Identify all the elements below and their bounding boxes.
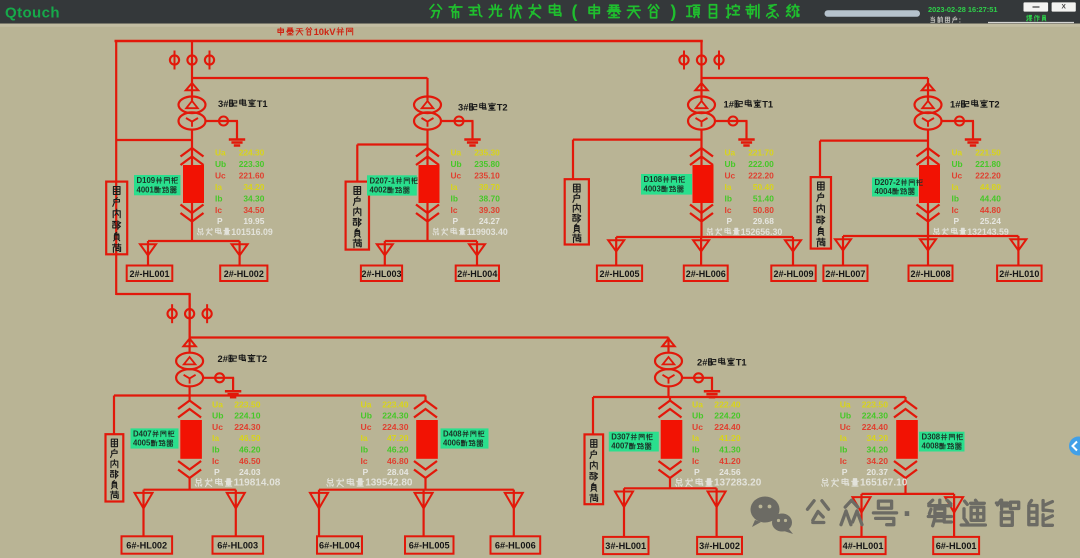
svg-text:2#-HL007: 2#-HL007 <box>825 269 865 279</box>
svg-text:Ib: Ib <box>361 445 369 455</box>
svg-text:P: P <box>453 216 459 226</box>
svg-text:152656.30: 152656.30 <box>741 227 783 237</box>
svg-text:P: P <box>217 216 223 226</box>
svg-text:38.70: 38.70 <box>479 193 500 203</box>
svg-text:P: P <box>727 216 733 226</box>
svg-text:3#: 3# <box>218 98 229 109</box>
svg-text:101516.09: 101516.09 <box>231 227 273 237</box>
svg-text:44.80: 44.80 <box>980 205 1001 215</box>
svg-text:2#-HL005: 2#-HL005 <box>600 269 640 279</box>
svg-text:223.50: 223.50 <box>234 399 261 409</box>
svg-text:41.30: 41.30 <box>719 445 741 455</box>
svg-text:139542.80: 139542.80 <box>365 477 413 488</box>
svg-text:P: P <box>842 467 848 477</box>
svg-text:P: P <box>363 467 369 477</box>
svg-text:Ia: Ia <box>451 182 458 192</box>
svg-text:224.10: 224.10 <box>234 411 261 421</box>
svg-text:2#-HL002: 2#-HL002 <box>224 269 264 279</box>
svg-text:223.30: 223.30 <box>239 159 265 169</box>
svg-text:6#-HL003: 6#-HL003 <box>217 541 258 551</box>
svg-text:Ia: Ia <box>725 182 732 192</box>
svg-text:Ib: Ib <box>692 445 700 455</box>
svg-text:51.40: 51.40 <box>753 193 774 203</box>
svg-text:235.10: 235.10 <box>474 170 500 180</box>
svg-text:235.80: 235.80 <box>474 159 500 169</box>
svg-text:Ic: Ic <box>725 205 732 215</box>
svg-text:137283.20: 137283.20 <box>714 477 762 488</box>
svg-text:Qtouch: Qtouch <box>5 5 60 22</box>
svg-text:Ub: Ub <box>212 411 223 421</box>
svg-text:Ua: Ua <box>692 399 703 409</box>
svg-text:Ib: Ib <box>725 193 732 203</box>
svg-text:4005: 4005 <box>133 439 151 448</box>
svg-text:(: ( <box>571 2 577 22</box>
svg-text:3#-HL001: 3#-HL001 <box>605 541 646 551</box>
svg-text:T2: T2 <box>989 99 1000 110</box>
svg-text:T1: T1 <box>257 98 268 109</box>
svg-text:235.30: 235.30 <box>474 148 500 158</box>
svg-text:4#-HL001: 4#-HL001 <box>843 541 884 551</box>
svg-text:39.30: 39.30 <box>479 205 500 215</box>
svg-text:P: P <box>694 467 700 477</box>
svg-text:Ia: Ia <box>215 182 222 192</box>
svg-text:D408: D408 <box>443 429 462 438</box>
svg-text:Ib: Ib <box>952 193 959 203</box>
svg-text:221.50: 221.50 <box>975 148 1001 158</box>
svg-text:2#-HL001: 2#-HL001 <box>130 269 170 279</box>
svg-text:T1: T1 <box>762 99 773 110</box>
svg-text:50.80: 50.80 <box>753 205 774 215</box>
svg-text:34.20: 34.20 <box>243 182 264 192</box>
svg-text:34.30: 34.30 <box>243 193 264 203</box>
svg-text:222.20: 222.20 <box>748 170 774 180</box>
svg-text:34.20: 34.20 <box>867 456 889 466</box>
svg-text:47.20: 47.20 <box>387 433 409 443</box>
svg-text:25.24: 25.24 <box>980 216 1001 226</box>
svg-text:2#-HL009: 2#-HL009 <box>774 269 814 279</box>
svg-text:Ic: Ic <box>840 456 847 466</box>
svg-text:T2: T2 <box>256 353 267 364</box>
svg-text:224.30: 224.30 <box>382 422 409 432</box>
svg-text:4003: 4003 <box>644 185 662 194</box>
svg-text:Ua: Ua <box>840 399 851 409</box>
svg-text:D207-1: D207-1 <box>370 176 396 185</box>
svg-text:223.40: 223.40 <box>382 399 409 409</box>
svg-text:224.30: 224.30 <box>239 148 265 158</box>
svg-text:224.30: 224.30 <box>862 411 889 421</box>
svg-text:34.50: 34.50 <box>243 205 264 215</box>
svg-text:119903.40: 119903.40 <box>467 227 508 237</box>
svg-text:D407: D407 <box>133 429 152 438</box>
svg-text:2023-02-28 16:27:51: 2023-02-28 16:27:51 <box>928 5 997 14</box>
svg-text:Uc: Uc <box>212 422 223 432</box>
svg-text:Ub: Ub <box>692 411 703 421</box>
svg-text:28.04: 28.04 <box>387 467 409 477</box>
svg-text:4002: 4002 <box>370 186 388 195</box>
svg-text:2#: 2# <box>218 353 229 364</box>
svg-text:Ic: Ic <box>451 205 458 215</box>
svg-text:224.20: 224.20 <box>714 411 741 421</box>
svg-text:Ia: Ia <box>212 433 219 443</box>
svg-text:Uc: Uc <box>451 170 462 180</box>
svg-text:119814.08: 119814.08 <box>234 477 281 488</box>
svg-text:3#-HL002: 3#-HL002 <box>699 541 740 551</box>
svg-text:Ub: Ub <box>725 159 736 169</box>
svg-text:44.80: 44.80 <box>980 182 1001 192</box>
svg-text:T1: T1 <box>736 357 747 368</box>
svg-text:Ub: Ub <box>361 411 372 421</box>
svg-text:4004: 4004 <box>875 187 893 196</box>
svg-text:224.30: 224.30 <box>234 422 261 432</box>
svg-text:44.40: 44.40 <box>980 193 1001 203</box>
svg-text:6#-HL002: 6#-HL002 <box>126 541 167 551</box>
svg-text:50.40: 50.40 <box>753 182 774 192</box>
svg-text:·: · <box>903 496 915 532</box>
svg-text:224.40: 224.40 <box>862 422 889 432</box>
svg-text:6#-HL001: 6#-HL001 <box>936 541 977 551</box>
svg-text:Uc: Uc <box>725 170 736 180</box>
svg-text:224.30: 224.30 <box>382 411 409 421</box>
svg-text:Ia: Ia <box>952 182 959 192</box>
svg-text:Uc: Uc <box>361 422 372 432</box>
svg-text:Ia: Ia <box>840 433 847 443</box>
svg-text:41.20: 41.20 <box>719 433 741 443</box>
svg-text:1#: 1# <box>724 99 735 110</box>
svg-text:2#-HL008: 2#-HL008 <box>911 269 951 279</box>
svg-text:4006: 4006 <box>443 439 461 448</box>
svg-text:24.56: 24.56 <box>719 467 741 477</box>
svg-text:2#-HL010: 2#-HL010 <box>999 269 1039 279</box>
svg-text:D308: D308 <box>922 433 941 442</box>
svg-text:Ic: Ic <box>692 456 699 466</box>
svg-text:10kV: 10kV <box>314 26 337 37</box>
svg-text:221.60: 221.60 <box>239 170 265 180</box>
svg-text:46.50: 46.50 <box>239 433 261 443</box>
svg-text:20.37: 20.37 <box>867 467 889 477</box>
svg-text:T2: T2 <box>497 102 508 113</box>
svg-text:4007: 4007 <box>611 442 628 451</box>
svg-text:Ua: Ua <box>725 148 736 158</box>
svg-text:4001: 4001 <box>137 185 155 194</box>
svg-text:Ib: Ib <box>840 445 848 455</box>
svg-text:Ib: Ib <box>212 445 220 455</box>
svg-text:39.70: 39.70 <box>479 182 500 192</box>
svg-text:6#-HL004: 6#-HL004 <box>319 541 361 551</box>
svg-text:46.80: 46.80 <box>387 456 409 466</box>
svg-text:Uc: Uc <box>692 422 703 432</box>
svg-text:46.20: 46.20 <box>239 445 261 455</box>
svg-text:223.50: 223.50 <box>862 399 889 409</box>
svg-text::: : <box>959 15 961 24</box>
svg-text:Ub: Ub <box>451 159 462 169</box>
svg-text:41.20: 41.20 <box>719 456 741 466</box>
svg-text:4008: 4008 <box>922 442 940 451</box>
svg-text:2#-HL003: 2#-HL003 <box>362 269 402 279</box>
svg-text:1#: 1# <box>950 99 961 110</box>
svg-text:D109: D109 <box>137 176 156 185</box>
svg-text:19.95: 19.95 <box>243 216 264 226</box>
svg-text:Ub: Ub <box>215 159 226 169</box>
svg-text:Ub: Ub <box>840 411 851 421</box>
svg-text:221.70: 221.70 <box>748 148 774 158</box>
svg-text:Ic: Ic <box>952 205 959 215</box>
svg-text:2#-HL006: 2#-HL006 <box>686 269 726 279</box>
svg-text:222.20: 222.20 <box>975 170 1001 180</box>
svg-text:Ua: Ua <box>215 148 226 158</box>
svg-text:6#-HL005: 6#-HL005 <box>409 541 450 551</box>
svg-text:221.80: 221.80 <box>975 159 1001 169</box>
svg-text:Ic: Ic <box>212 456 219 466</box>
svg-text:Uc: Uc <box>952 170 963 180</box>
svg-text:224.40: 224.40 <box>714 422 741 432</box>
svg-text:Ua: Ua <box>212 399 223 409</box>
svg-text:Ib: Ib <box>215 193 222 203</box>
svg-text:Uc: Uc <box>215 170 226 180</box>
svg-text:Ic: Ic <box>361 456 368 466</box>
svg-text:D108: D108 <box>644 175 663 184</box>
svg-text:): ) <box>670 2 676 22</box>
svg-text:34.20: 34.20 <box>867 433 889 443</box>
svg-text:3#: 3# <box>458 102 469 113</box>
svg-text:2#-HL004: 2#-HL004 <box>457 269 497 279</box>
svg-text:24.27: 24.27 <box>479 216 500 226</box>
svg-text:222.00: 222.00 <box>748 159 774 169</box>
svg-text:D307: D307 <box>611 433 630 442</box>
svg-text:Ia: Ia <box>361 433 368 443</box>
svg-text:P: P <box>954 216 960 226</box>
svg-text:46.50: 46.50 <box>239 456 261 466</box>
svg-text:Ic: Ic <box>215 205 222 215</box>
svg-text:Ub: Ub <box>952 159 963 169</box>
svg-text:2#: 2# <box>697 357 708 368</box>
svg-text:46.20: 46.20 <box>387 445 409 455</box>
svg-text:Ib: Ib <box>451 193 458 203</box>
svg-text:Ia: Ia <box>692 433 699 443</box>
svg-text:Ua: Ua <box>952 148 963 158</box>
svg-text:Ua: Ua <box>451 148 462 158</box>
svg-text:X: X <box>1062 4 1067 11</box>
svg-text:34.20: 34.20 <box>867 445 889 455</box>
svg-text:222.40: 222.40 <box>714 399 741 409</box>
svg-text:29.68: 29.68 <box>753 216 774 226</box>
svg-text:24.03: 24.03 <box>239 467 261 477</box>
svg-text:D207-2: D207-2 <box>875 178 901 187</box>
svg-text:P: P <box>214 467 220 477</box>
svg-text:6#-HL006: 6#-HL006 <box>495 541 536 551</box>
svg-text:165167.10: 165167.10 <box>860 477 908 488</box>
svg-text:Ua: Ua <box>361 399 372 409</box>
svg-text:Uc: Uc <box>840 422 851 432</box>
